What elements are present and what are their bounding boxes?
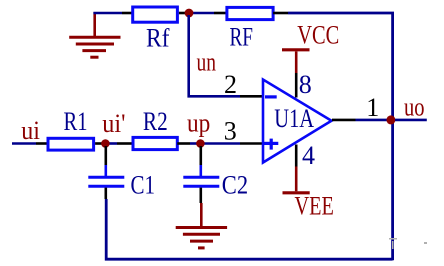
node un junction dot [185, 9, 194, 18]
svg-text:C1: C1 [131, 170, 156, 199]
svg-text:3: 3 [224, 117, 237, 146]
svg-text:up: up [187, 109, 210, 138]
wire: R2 to up node to pin 3 [177, 142, 263, 145]
svg-text:RF: RF [230, 23, 254, 52]
pin 8 wire [295, 52, 298, 98]
svg-text:U1A: U1A [274, 104, 314, 133]
wire: C2 down to ground [200, 188, 203, 227]
svg-text:VCC: VCC [297, 21, 339, 50]
wire: ui' node down to C1 [105, 146, 108, 176]
ground symbol (below C2) [176, 228, 227, 248]
svg-text:R2: R2 [143, 107, 168, 136]
wire: input ui to R1 [12, 142, 47, 145]
resistor R1 [48, 138, 94, 150]
svg-text:R1: R1 [64, 107, 88, 136]
node up junction dot [196, 139, 205, 148]
pin 4 wire [295, 145, 298, 192]
svg-text:8: 8 [299, 70, 312, 99]
VCC power symbol [282, 48, 310, 51]
node ui' junction dot [101, 139, 110, 148]
svg-text:2: 2 [224, 70, 237, 99]
wire: R1 to R2 [95, 142, 131, 145]
wire: bottom feedback rail (C1 down, across, up to uo node) [106, 199, 392, 259]
svg-text:uo: uo [404, 93, 425, 122]
ground symbol (top-left) [69, 12, 120, 57]
wire: up node down to C2 [200, 146, 203, 176]
resistor Rf [133, 7, 178, 22]
svg-text:1: 1 [366, 93, 379, 122]
wire: op-amp output to uo node [332, 119, 388, 122]
resistor R2 [133, 137, 177, 149]
capacitor C2 [183, 177, 219, 186]
wire: C1 to bottom rail [105, 188, 108, 199]
svg-text:ui: ui [21, 116, 40, 145]
wire: ground to Rf [93, 12, 131, 15]
node uo junction dot [386, 115, 395, 124]
svg-text:un: un [197, 47, 217, 76]
VEE power symbol [283, 191, 310, 194]
wire: uo right stub [395, 119, 427, 122]
svg-text:VEE: VEE [295, 192, 334, 221]
svg-text:C2: C2 [222, 170, 248, 199]
watermark (faint) [389, 238, 427, 249]
svg-text:Rf: Rf [146, 24, 170, 53]
svg-text:ui': ui' [102, 109, 125, 138]
wire: RF to output node (top right and down) [273, 13, 393, 120]
svg-text:4: 4 [302, 141, 315, 170]
wire: un node down to pin 2 [189, 15, 263, 96]
capacitor C1 [88, 177, 124, 186]
wire: Rf to RF [179, 12, 226, 15]
resistor RF [227, 7, 273, 19]
op-amp U1A [263, 80, 332, 163]
